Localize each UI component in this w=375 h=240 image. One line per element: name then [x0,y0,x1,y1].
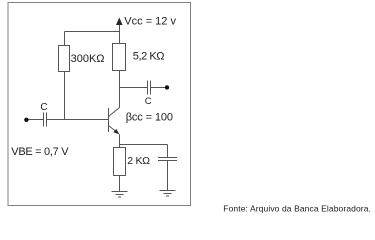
svg-text:Fonte: Arquivo da Banca Elabor: Fonte: Arquivo da Banca Elaboradora. [223,204,371,214]
svg-text:5,2 KΩ: 5,2 KΩ [133,50,164,62]
svg-text:C: C [40,102,47,113]
svg-text:300KΩ: 300KΩ [71,53,105,65]
svg-text:Vcc = 12 v: Vcc = 12 v [124,16,176,28]
svg-text:C: C [145,96,152,107]
svg-text:βcc = 100: βcc = 100 [126,112,173,124]
svg-text:2 KΩ: 2 KΩ [127,155,150,167]
svg-text:VBE = 0,7 V: VBE = 0,7 V [11,146,69,158]
